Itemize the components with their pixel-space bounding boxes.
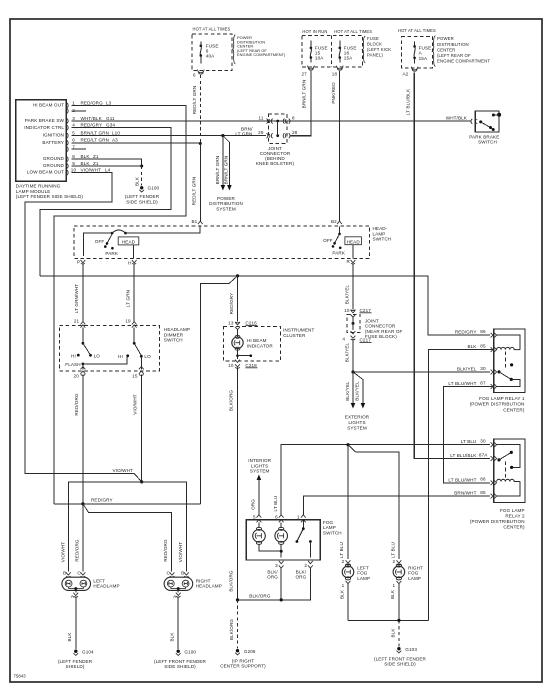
svg-text:3: 3 — [72, 116, 75, 121]
svg-text:CENTER): CENTER) — [503, 524, 525, 529]
wire RED/LT GRN fuse6 to B1 — [192, 75, 202, 222]
svg-text:VIO/WHT: VIO/WHT — [61, 542, 66, 563]
svg-text:L3: L3 — [106, 100, 112, 105]
svg-text:BLK: BLK — [169, 632, 174, 642]
wire BLK/ORG fog switch to ground line — [236, 568, 311, 602]
fog switch contact — [296, 520, 312, 558]
wire LT BLU to right fog lamp — [348, 445, 399, 559]
svg-text:SIDE SHIELD): SIDE SHIELD) — [164, 664, 196, 669]
svg-text:G103: G103 — [405, 647, 417, 652]
svg-text:BATTERY: BATTERY — [42, 140, 64, 145]
junction VIO/WHT node — [61, 468, 187, 572]
wire RED/ORG dimmer 20 down to junction and left headlamp C — [74, 375, 83, 572]
relay1 pin labels — [448, 329, 486, 386]
svg-text:(POWER DISTRIBUTION: (POWER DISTRIBUTION — [470, 402, 525, 407]
svg-text:87: 87 — [480, 380, 486, 385]
svg-text:CENTER: CENTER — [437, 47, 455, 52]
svg-text:27: 27 — [302, 72, 308, 77]
svg-text:HOT AT ALL TIMES: HOT AT ALL TIMES — [398, 28, 436, 33]
svg-text:LT BLU: LT BLU — [391, 542, 396, 558]
svg-text:FUSE BLOCK): FUSE BLOCK) — [365, 334, 397, 339]
right fog lamp — [393, 559, 424, 588]
svg-text:4: 4 — [342, 337, 345, 342]
svg-text:21: 21 — [74, 319, 80, 324]
svg-text:B2: B2 — [331, 219, 337, 224]
svg-text:LIGHTS: LIGHTS — [348, 420, 365, 425]
wire VIO/WHT dimmer 15 down to junction — [132, 375, 141, 482]
joint connector C217 — [342, 308, 402, 343]
svg-text:85: 85 — [480, 343, 486, 348]
svg-text:HOT AT ALL TIMES: HOT AT ALL TIMES — [193, 27, 231, 32]
headlamp switch right rotary (off/head/park) — [323, 227, 361, 259]
svg-text:RED/LT GRN: RED/LT GRN — [192, 86, 197, 115]
wire RED/LT GRN A3 from pin 6 — [72, 142, 201, 144]
svg-text:4: 4 — [72, 123, 75, 128]
svg-text:HI: HI — [118, 354, 123, 359]
svg-text:(LEFT FENDER SIDE SHIELD): (LEFT FENDER SIDE SHIELD) — [16, 194, 84, 199]
svg-text:L4: L4 — [105, 168, 111, 173]
fuse F18 15A — [332, 41, 357, 77]
svg-text:15: 15 — [132, 374, 138, 379]
svg-text:BRN/LT GRN: BRN/LT GRN — [215, 156, 220, 185]
svg-text:RED/GRY: RED/GRY — [81, 123, 103, 128]
svg-text:BLK: BLK — [81, 161, 91, 166]
svg-text:VIO/WHT: VIO/WHT — [81, 168, 102, 173]
ground G103 — [374, 620, 427, 666]
svg-text:LT GRN/WHT: LT GRN/WHT — [74, 284, 79, 313]
svg-text:LT BLU: LT BLU — [339, 542, 344, 558]
svg-text:BLK/ORG: BLK/ORG — [229, 570, 234, 592]
svg-text:G100: G100 — [184, 650, 196, 655]
svg-text:BRN/LT GRN: BRN/LT GRN — [81, 130, 110, 135]
svg-text:8: 8 — [72, 154, 75, 159]
svg-text:SYSTEM: SYSTEM — [347, 426, 367, 431]
left headlamp — [62, 571, 120, 599]
wire BRN/LT GRN drop 1 to power distribution system — [215, 136, 225, 191]
headlamp dimmer switch S3 — [59, 326, 190, 371]
svg-text:LT BLU/WHT: LT BLU/WHT — [448, 381, 476, 386]
wire BLK/YEL headlamp switch R to C217 — [345, 265, 353, 310]
svg-text:2: 2 — [304, 563, 307, 568]
dimmer pin 15 — [132, 367, 144, 379]
svg-text:BLK: BLK — [467, 344, 477, 349]
svg-text:BLK/YEL: BLK/YEL — [345, 342, 350, 362]
svg-text:ENGINE COMPARTMENT: ENGINE COMPARTMENT — [437, 59, 490, 64]
fog lamp relay 1 — [491, 329, 525, 393]
svg-text:LT GRN: LT GRN — [126, 290, 131, 307]
svg-text:RED/LT GRN: RED/LT GRN — [81, 138, 110, 143]
svg-text:G100: G100 — [148, 186, 160, 191]
svg-text:LT GRN: LT GRN — [235, 131, 252, 136]
svg-text:LT BLU/WHT: LT BLU/WHT — [448, 477, 476, 482]
svg-text:OFF: OFF — [323, 238, 333, 243]
svg-text:7: 7 — [72, 144, 75, 149]
svg-text:SWITCH: SWITCH — [323, 530, 342, 535]
svg-text:G104: G104 — [82, 650, 94, 655]
svg-text:A2: A2 — [403, 72, 409, 77]
headlamp switch left rotary (off/head/park) — [83, 226, 199, 259]
wire BLK/ORG indicator to ground bus — [229, 367, 238, 600]
svg-text:BLOCK: BLOCK — [367, 42, 382, 47]
svg-text:6: 6 — [275, 515, 278, 520]
svg-text:ENGINE COMPARTMENT): ENGINE COMPARTMENT) — [237, 52, 286, 57]
svg-text:CLUSTER: CLUSTER — [283, 333, 306, 338]
wire RED/ORG L3 from pin 1 — [54, 106, 186, 504]
svg-text:VIO/WHT: VIO/WHT — [113, 468, 134, 473]
wire LT GRN H to dimmer 19 — [126, 265, 135, 322]
wire WHT/BLK G11 pin3 to park brake switch — [72, 120, 472, 122]
svg-text:6: 6 — [72, 138, 75, 143]
wire BRN/LT GRN drop 2 to power distribution system — [223, 136, 232, 191]
svg-text:11: 11 — [258, 115, 263, 120]
svg-text:2: 2 — [393, 559, 396, 564]
svg-text:86: 86 — [480, 329, 486, 334]
svg-text:INDICATOR CTRL: INDICATOR CTRL — [24, 125, 64, 130]
svg-text:FLASH: FLASH — [65, 362, 80, 367]
svg-text:PARK BRAKE SW: PARK BRAKE SW — [25, 118, 65, 123]
svg-text:PARK: PARK — [105, 251, 118, 256]
svg-text:BLK: BLK — [135, 176, 140, 186]
svg-text:BLK: BLK — [67, 632, 72, 642]
module pin 1 — [67, 100, 112, 108]
svg-text:RED/LT GRN: RED/LT GRN — [192, 177, 197, 206]
fog lamp ground bus — [348, 619, 429, 622]
svg-text:RED/ORG: RED/ORG — [74, 393, 79, 416]
svg-text:RED/ORG: RED/ORG — [75, 539, 80, 562]
svg-text:HEADLAMP: HEADLAMP — [93, 584, 119, 589]
svg-text:LT BLU/BLK: LT BLU/BLK — [450, 453, 477, 458]
svg-text:6: 6 — [193, 73, 196, 78]
svg-text:B1: B1 — [191, 219, 197, 224]
svg-text:SWITCH: SWITCH — [478, 140, 497, 145]
module pin 10 — [67, 168, 111, 176]
svg-text:HI: HI — [71, 353, 76, 358]
svg-text:5: 5 — [72, 130, 75, 135]
ground G206 — [220, 600, 266, 669]
svg-text:BLK/ORG: BLK/ORG — [229, 390, 234, 412]
svg-text:SIDE SHIELD): SIDE SHIELD) — [126, 199, 158, 204]
svg-text:(LEFT KICK: (LEFT KICK — [367, 47, 391, 52]
svg-text:BLK: BLK — [339, 589, 344, 599]
svg-text:ORG: ORG — [251, 499, 256, 510]
svg-text:GROUND: GROUND — [43, 156, 65, 161]
fuse block (left kick panel) box — [302, 29, 372, 67]
svg-text:RELAY 2: RELAY 2 — [505, 513, 525, 518]
svg-text:1: 1 — [72, 100, 75, 105]
dimmer internal hi/lo/flash left — [65, 328, 127, 370]
svg-text:LOW BEAM OUT: LOW BEAM OUT — [27, 170, 64, 175]
svg-text:ORG: ORG — [267, 575, 278, 580]
svg-text:BRN/WHT: BRN/WHT — [454, 491, 476, 496]
svg-text:FOG LAMP: FOG LAMP — [500, 508, 525, 513]
svg-text:Z1: Z1 — [93, 154, 99, 159]
wire RED/GRY G34 from pin 4 — [40, 128, 171, 276]
svg-text:FUSE: FUSE — [367, 36, 379, 41]
svg-text:18: 18 — [332, 72, 338, 77]
junction RED/ORG node — [54, 498, 201, 572]
wire RED/GRY long line with junction — [40, 274, 490, 504]
svg-text:85: 85 — [480, 490, 486, 495]
headlamp switch S1 box — [74, 226, 391, 259]
svg-text:HOT IN RUN: HOT IN RUN — [302, 29, 327, 34]
svg-text:PARK: PARK — [332, 251, 345, 256]
svg-text:9: 9 — [72, 161, 75, 166]
module pin 3 — [67, 116, 115, 124]
svg-text:WHT/BLK: WHT/BLK — [81, 116, 103, 121]
svg-text:IGNITION: IGNITION — [43, 133, 64, 138]
node label power distribution system — [209, 196, 243, 211]
svg-text:75843: 75843 — [14, 674, 27, 679]
svg-text:C218: C218 — [245, 363, 257, 368]
svg-text:C217: C217 — [360, 308, 372, 313]
svg-text:G206: G206 — [244, 649, 256, 654]
svg-text:30: 30 — [480, 439, 486, 444]
ground G100 (right headlamp) — [154, 597, 207, 670]
module pin 4 — [67, 123, 116, 131]
svg-text:LT BLU/BLK: LT BLU/BLK — [405, 88, 410, 115]
svg-text:INTERIOR: INTERIOR — [248, 458, 271, 463]
svg-text:KNEE BOLSTER): KNEE BOLSTER) — [256, 161, 295, 166]
svg-text:RED/GRY: RED/GRY — [455, 330, 477, 335]
svg-text:BLK/YEL: BLK/YEL — [457, 366, 477, 371]
svg-text:DISTRIBUTION: DISTRIBUTION — [437, 42, 469, 47]
relay1 caption — [470, 396, 525, 412]
svg-text:FOG LAMP RELAY 1: FOG LAMP RELAY 1 — [479, 396, 525, 401]
svg-text:BLK/YEL: BLK/YEL — [345, 284, 350, 304]
svg-text:SYSTEM: SYSTEM — [250, 469, 270, 474]
dimmer pin 21 — [74, 319, 85, 328]
wire BRN/LT GRN fuse15 to joint connector pin 28 — [290, 71, 311, 136]
svg-text:SYSTEM: SYSTEM — [216, 206, 236, 211]
svg-text:30: 30 — [480, 366, 486, 371]
svg-text:HEAD: HEAD — [347, 239, 361, 244]
svg-text:ORG: ORG — [295, 575, 306, 580]
wire BLK right fog lamp to bus — [390, 584, 399, 620]
power distribution center label (left) — [233, 35, 287, 64]
svg-text:VIO/WHT: VIO/WHT — [132, 394, 137, 415]
svg-text:HEAD: HEAD — [122, 239, 136, 244]
wire LT BLU/BLK fuseA to relay2 87A — [405, 73, 490, 459]
svg-text:PANEL): PANEL) — [367, 52, 383, 57]
dimmer pin 19 — [125, 319, 136, 328]
svg-text:BLK/ORG: BLK/ORG — [229, 619, 234, 641]
fog switch illumination bulb 2 — [275, 522, 288, 557]
svg-text:2: 2 — [342, 559, 345, 564]
fog switch pin 2 — [295, 561, 312, 580]
pin B1 — [191, 219, 202, 224]
pin P — [77, 260, 85, 265]
svg-text:20: 20 — [74, 374, 80, 379]
svg-text:LAMP: LAMP — [408, 576, 421, 581]
wire LT BLU fog switch 6 to relay2 30 — [273, 443, 490, 515]
svg-text:P: P — [77, 260, 80, 265]
svg-text:LIGHTS: LIGHTS — [251, 463, 268, 468]
fog lamp switch S4 — [246, 520, 342, 560]
svg-text:RED/ORG: RED/ORG — [81, 100, 104, 105]
svg-text:RED/GRY: RED/GRY — [91, 498, 113, 503]
power distribution center label (right) — [432, 36, 490, 67]
svg-text:10A: 10A — [315, 56, 324, 61]
module pin 9 — [67, 161, 99, 169]
wire fog switch pin1 to BRN/WHT relay2 85 — [303, 496, 490, 515]
relay2 caption — [470, 508, 525, 530]
module pin 5 — [67, 130, 121, 138]
svg-text:HEADLAMP: HEADLAMP — [196, 584, 222, 589]
svg-text:BLK: BLK — [81, 154, 91, 159]
fog switch pin 1 — [297, 515, 306, 523]
svg-text:PNK/RED: PNK/RED — [331, 82, 336, 104]
svg-text:HI BEAM: HI BEAM — [247, 338, 267, 343]
fuse block label — [362, 36, 391, 63]
svg-text:LT BLU: LT BLU — [273, 496, 278, 512]
module pin 2 stub — [67, 108, 86, 114]
svg-text:POWER: POWER — [437, 36, 454, 41]
relay2 pin labels — [448, 439, 488, 496]
svg-text:40A: 40A — [206, 54, 215, 59]
fog switch pin 6 — [275, 515, 283, 523]
svg-text:C216: C216 — [245, 321, 257, 326]
left fog lamp — [342, 559, 371, 588]
svg-text:EXTERIOR: EXTERIOR — [345, 415, 370, 420]
wire LT GRN/WHT P to dimmer 21 — [74, 265, 83, 322]
svg-text:WHT/BLK: WHT/BLK — [446, 116, 468, 121]
svg-text:L10: L10 — [112, 130, 120, 135]
module pin 6 — [67, 138, 118, 146]
node exterior lights system — [345, 415, 370, 431]
wire BLK relay1 85 to fog ground bus — [429, 350, 494, 621]
wire BLK/YEL C217 to relay1 30 — [345, 339, 490, 374]
fog lamp relay 2 — [491, 439, 525, 503]
right headlamp — [164, 571, 222, 599]
svg-text:H: H — [128, 261, 131, 266]
svg-text:86: 86 — [480, 477, 486, 482]
wire LT BLU to left fog lamp — [339, 445, 348, 559]
wire BRN/LT GRN L10 from pin 5 — [72, 135, 267, 137]
fog switch pin 3 — [267, 561, 283, 580]
dimmer pin 20 — [74, 367, 86, 379]
svg-text:LO: LO — [94, 353, 101, 358]
svg-text:10: 10 — [344, 308, 350, 313]
svg-text:(LEFT REAR OF: (LEFT REAR OF — [437, 53, 471, 58]
svg-text:BRN/LT GRN: BRN/LT GRN — [302, 80, 307, 109]
svg-text:5: 5 — [253, 515, 256, 520]
svg-text:BLK/ORG: BLK/ORG — [249, 593, 271, 598]
wire BLK left fog lamp to bus — [339, 584, 348, 620]
svg-text:BLK/YEL: BLK/YEL — [345, 381, 350, 401]
svg-text:13: 13 — [228, 321, 234, 326]
svg-text:87A: 87A — [479, 452, 488, 457]
svg-text:BLK/YEL: BLK/YEL — [354, 381, 359, 401]
svg-text:SHIELD): SHIELD) — [66, 664, 85, 669]
svg-text:R: R — [346, 259, 350, 264]
svg-text:19: 19 — [125, 319, 131, 324]
svg-text:1: 1 — [393, 583, 396, 588]
svg-text:HOT AT ALL TIMES: HOT AT ALL TIMES — [334, 29, 372, 34]
svg-text:BRN/LT GRN: BRN/LT GRN — [224, 156, 229, 185]
wire BLK/YEL drop 2 exterior lights — [353, 372, 365, 409]
svg-text:15A: 15A — [419, 56, 428, 61]
svg-text:RED/ORG: RED/ORG — [163, 539, 168, 562]
pin R — [346, 259, 355, 264]
daytime running lamp module U1 — [16, 100, 84, 199]
svg-text:RED/GRY: RED/GRY — [229, 293, 234, 315]
svg-text:3: 3 — [275, 563, 278, 568]
connector C218 pin 10 — [228, 360, 257, 369]
svg-text:INDICATOR: INDICATOR — [247, 344, 273, 349]
svg-text:B: B — [181, 571, 184, 576]
instrument cluster box — [224, 327, 315, 361]
fog switch pin 5 — [253, 515, 261, 523]
svg-text:G34: G34 — [106, 123, 115, 128]
pin H — [128, 260, 136, 266]
svg-text:2: 2 — [72, 108, 75, 113]
svg-text:VIO/WHT: VIO/WHT — [178, 542, 183, 563]
svg-text:BLK: BLK — [390, 628, 395, 638]
fuse F6 40A (power distribution center) — [192, 27, 232, 78]
svg-text:HI BEAM OUT: HI BEAM OUT — [33, 103, 64, 108]
svg-text:Z1: Z1 — [93, 161, 99, 166]
svg-text:10: 10 — [228, 363, 234, 368]
wire ORG interior lights to fog switch 5 — [251, 479, 259, 515]
svg-text:15A: 15A — [344, 56, 353, 61]
wire BLK Z1 pins 8/9 to G100 — [72, 159, 144, 186]
svg-text:LAMP: LAMP — [357, 576, 370, 581]
park brake switch S2 — [446, 111, 501, 145]
ground G104 — [58, 597, 94, 670]
wire LT BLU/WHT relay1 87 to relay2 86 — [443, 387, 493, 483]
wire VIO/WHT L4 from pin 10 — [25, 173, 142, 482]
svg-text:A3: A3 — [112, 138, 118, 143]
svg-text:BLK: BLK — [390, 589, 395, 599]
connector C216 pin 13 — [228, 321, 257, 330]
svg-text:10: 10 — [71, 168, 77, 173]
joint connector C1 (behind knee bolster) — [235, 114, 297, 166]
fuse F15 10A — [302, 41, 328, 77]
svg-text:SWITCH: SWITCH — [373, 237, 392, 242]
dimmer internal hi/lo right — [118, 328, 151, 370]
svg-text:OFF: OFF — [95, 239, 105, 244]
module pin 7 stub — [67, 144, 86, 151]
fog switch illumination bulb 1 — [253, 522, 282, 551]
module pin 8 — [67, 154, 99, 162]
wire BLK/YEL drop 1 exterior lights — [345, 372, 356, 409]
pin B2 — [331, 219, 342, 224]
svg-text:29: 29 — [258, 130, 264, 135]
svg-text:B: B — [63, 571, 66, 576]
svg-text:(POWER DISTRIBUTION: (POWER DISTRIBUTION — [470, 519, 525, 524]
svg-text:1: 1 — [297, 515, 300, 520]
svg-text:SIDE SHIELD): SIDE SHIELD) — [384, 662, 416, 667]
junction dot BRN/LT GRN node — [221, 134, 224, 137]
svg-text:28: 28 — [292, 130, 298, 135]
svg-text:GROUND: GROUND — [43, 163, 65, 168]
hi beam indicator lamp — [232, 330, 274, 360]
node interior lights system — [248, 458, 271, 480]
svg-text:CENTER SUPPORT): CENTER SUPPORT) — [220, 664, 266, 669]
wire PNK/RED fuse18 to B2 — [331, 71, 340, 222]
svg-text:8: 8 — [292, 115, 295, 120]
fuse FA 15A (power distribution center) — [398, 28, 436, 77]
svg-text:LT BLU: LT BLU — [461, 439, 477, 444]
svg-text:SWITCH: SWITCH — [164, 338, 183, 343]
ground G100 (module) — [125, 186, 160, 205]
svg-text:1: 1 — [342, 583, 345, 588]
svg-text:CENTER): CENTER) — [503, 407, 525, 412]
svg-text:LO: LO — [144, 354, 151, 359]
svg-text:G11: G11 — [106, 116, 115, 121]
